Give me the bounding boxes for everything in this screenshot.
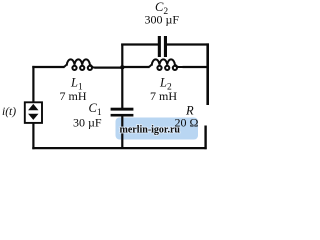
inductor L2 [149, 59, 184, 70]
wire: right vertical, lower segment (from resistor gap to bottom) [204, 126, 206, 150]
wire: C1 branch vertical above capacitor [121, 66, 123, 109]
current source i(t) [25, 102, 42, 123]
junction node A (between L1 and L2, top of C1 branch) [120, 65, 124, 69]
wire: right vertical, upper segment (to resistor gap) [206, 43, 209, 105]
svg-text:i(t): i(t) [2, 106, 16, 118]
inductor L1 [64, 59, 96, 70]
wire: top rail, right of C2 [167, 43, 209, 45]
wire: bottom horizontal [32, 147, 206, 149]
wire: left vertical above source [32, 66, 34, 103]
wire: main horizontal, between node A and L2 [123, 66, 150, 68]
wire: main horizontal, left section (source top node to L1) [32, 66, 64, 68]
capacitor C1 [111, 108, 134, 117]
watermark text merlin-igor.ru [120, 125, 181, 136]
wire: main horizontal, L2 to right corner [183, 66, 209, 68]
svg-text:7 mH: 7 mH [150, 89, 177, 103]
wire: main horizontal, between L1 and node A [95, 66, 123, 68]
capacitor C2 [158, 36, 167, 57]
resistor R (body not visible in scan: gap in right wire) [0, 0, 1, 1]
wire: left vertical below source [32, 123, 34, 150]
svg-text:300 µF: 300 µF [145, 13, 180, 27]
wire: top rail, left of C2 [121, 43, 158, 45]
wire: C1 branch vertical below capacitor [121, 116, 123, 149]
watermark highlight box [116, 118, 199, 140]
svg-text:7 mH: 7 mH [60, 89, 87, 103]
wire: C2 branch left vertical (node A up to top rail) [121, 44, 123, 68]
svg-text:30 µF: 30 µF [73, 116, 102, 130]
svg-text:merlin-igor.ru: merlin-igor.ru [120, 125, 181, 136]
